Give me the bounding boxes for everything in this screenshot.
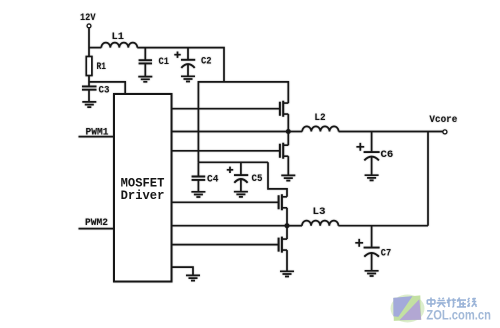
svg-text:ZOL.com.cn: ZOL.com.cn bbox=[426, 306, 491, 322]
